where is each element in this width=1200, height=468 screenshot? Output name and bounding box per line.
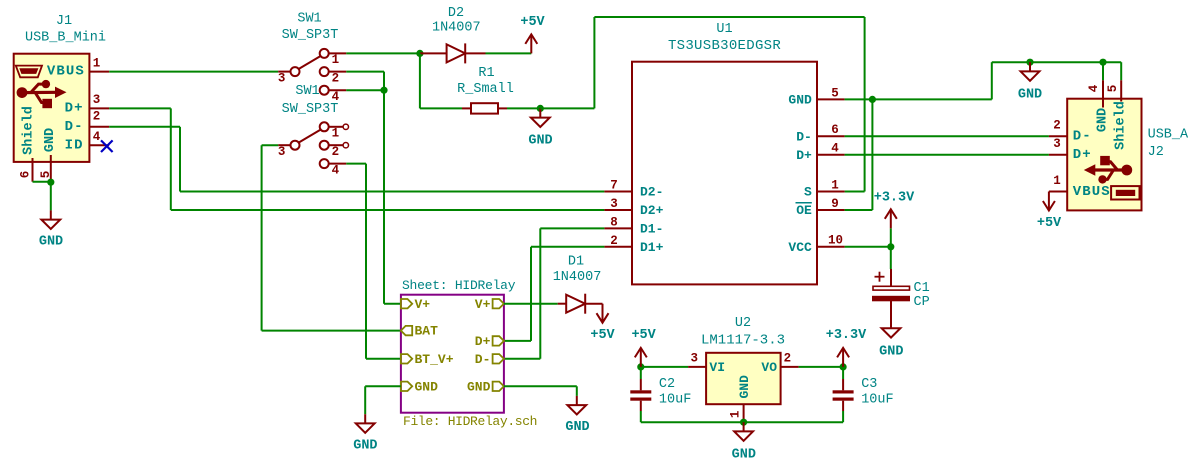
J1 pin 5 GND <box>39 155 53 182</box>
regulator U2 body <box>706 353 781 404</box>
wire sheet D+ stub <box>504 340 531 342</box>
GND label sheet left <box>353 439 377 454</box>
wire V+ vertical <box>383 90 385 304</box>
ground symbol R1 <box>531 108 550 127</box>
wire D1+ vertical <box>530 247 532 341</box>
svg-text:SW_SP3T: SW_SP3T <box>282 28 339 43</box>
wire sheet GND right <box>504 385 577 387</box>
svg-text:D-: D- <box>65 119 84 135</box>
junction R1 gnd <box>537 105 544 112</box>
svg-text:D-: D- <box>1073 129 1092 145</box>
wire gnd row up <box>991 62 993 99</box>
svg-text:D2+: D2+ <box>640 203 664 218</box>
svg-text:C1: C1 <box>914 281 930 296</box>
capacitor C1 value CP <box>914 295 930 310</box>
svg-text:3: 3 <box>278 145 286 159</box>
capacitor C3 reference <box>861 377 877 392</box>
wire sheet D- stub <box>504 358 540 360</box>
capacitor C3 <box>833 367 854 422</box>
svg-text:GND: GND <box>788 93 812 108</box>
wire D- J1 right <box>109 126 180 128</box>
J2 pin 3 D+ <box>1049 137 1067 155</box>
diode D2 <box>420 43 486 63</box>
sheet HIDRelay box <box>401 295 504 413</box>
svg-text:7: 7 <box>610 179 618 193</box>
J2 pin name Shield <box>1114 101 1129 150</box>
svg-text:2: 2 <box>784 351 792 365</box>
wire U1 D+ to J2 <box>845 154 1049 156</box>
svg-text:USB_A: USB_A <box>1148 128 1189 143</box>
svg-text:4: 4 <box>93 130 101 144</box>
svg-text:D1+: D1+ <box>640 240 664 255</box>
svg-text:VBUS: VBUS <box>1073 184 1111 200</box>
J1 pin name Shield <box>22 106 37 155</box>
svg-text:SW1: SW1 <box>297 12 321 27</box>
wire SW1 pin4 right <box>346 89 384 91</box>
sheet pin D+ right <box>475 334 504 349</box>
svg-text:2: 2 <box>610 234 618 248</box>
connector J1 USB_B_Mini body <box>14 54 90 162</box>
U1 pin 10 VCC <box>817 234 845 248</box>
power +3.3V at VCC <box>885 209 897 228</box>
switch SW1 (top) reference <box>297 12 321 27</box>
junction +3.3V C3 <box>840 363 847 370</box>
svg-text:8: 8 <box>610 215 618 229</box>
J2 pin 4 GND <box>1087 80 1103 107</box>
svg-text:1: 1 <box>332 53 340 67</box>
svg-text:3: 3 <box>1053 137 1061 151</box>
junction D2 anode <box>416 50 423 57</box>
GND label R1 <box>528 134 552 149</box>
no-connect X on J1 pin 4 <box>101 140 113 152</box>
wire C2 to C3 bottom <box>641 421 843 423</box>
SW1 bottom lever <box>299 130 321 143</box>
J1 pin 6 Shield <box>19 158 33 182</box>
J2 pin name D- <box>1073 129 1092 145</box>
J2 pin name D+ <box>1073 147 1092 163</box>
sheet pin D- right <box>475 352 504 367</box>
svg-text:6: 6 <box>19 171 33 179</box>
U2 pin 1 GND <box>728 404 743 422</box>
svg-text:LM1117-3.3: LM1117-3.3 <box>701 332 785 348</box>
SW1 bottom pin 1 <box>320 122 343 140</box>
svg-text:6: 6 <box>831 123 839 137</box>
J2 USB trident icon <box>1084 156 1132 184</box>
GND label C1 <box>879 345 903 360</box>
svg-text:VI: VI <box>709 360 725 375</box>
wire +5V to VI <box>641 366 688 368</box>
wire BT_V+ vertical <box>365 164 367 359</box>
wire sheet GND down <box>364 386 366 414</box>
wire J2 pin5 drop <box>1120 62 1122 80</box>
GND label sheet right <box>565 420 589 435</box>
ground symbol sheet right <box>567 396 586 415</box>
wire J2 pin4 drop <box>1102 62 1104 80</box>
wire D2 anode down <box>419 53 421 108</box>
U1 pin 5 GND <box>817 86 845 100</box>
U1 pin 4 D+ <box>817 142 845 156</box>
J2 pin name GND <box>1096 108 1111 132</box>
ground symbol J1 <box>41 210 60 229</box>
wire SW1b pin3 left <box>262 144 279 146</box>
svg-text:GND: GND <box>737 375 752 399</box>
IC U1 body <box>632 62 817 285</box>
J1 USB trident icon <box>17 80 67 108</box>
wire J1 pin6 to pin5 <box>33 181 51 183</box>
svg-text:SW_SP3T: SW_SP3T <box>282 102 339 117</box>
svg-text:D2-: D2- <box>640 185 663 200</box>
svg-text:C3: C3 <box>861 377 877 392</box>
U2 pin 2 VO <box>781 351 799 367</box>
J1 pin name D- <box>65 119 84 135</box>
svg-text:D-: D- <box>796 129 812 144</box>
svg-text:VCC: VCC <box>788 240 812 255</box>
+3.3V label at U2 <box>826 328 867 343</box>
svg-text:2: 2 <box>93 110 101 124</box>
svg-text:+5V: +5V <box>520 15 545 30</box>
svg-text:SW1: SW1 <box>295 84 319 99</box>
J1 pin name VBUS <box>47 64 85 80</box>
wire SW1b pin4 right <box>346 163 366 165</box>
svg-text:2: 2 <box>332 145 340 159</box>
wire VO to +3.3V <box>799 366 844 368</box>
sheet pin GND left <box>401 379 438 394</box>
svg-text:1N4007: 1N4007 <box>553 270 602 285</box>
svg-text:Shield: Shield <box>22 106 37 155</box>
capacitor C1 polarized <box>872 247 910 319</box>
J1 pin name D+ <box>65 101 84 117</box>
power +5V at U2 <box>635 348 647 367</box>
+5V label at D2 <box>520 15 545 30</box>
capacitor C2 reference <box>659 377 675 392</box>
svg-text:CP: CP <box>914 295 930 310</box>
wire VCC junction up <box>890 228 892 247</box>
svg-text:1: 1 <box>831 178 839 192</box>
svg-text:S: S <box>804 185 812 200</box>
wire BAT to sheet <box>262 330 401 332</box>
wire SW1 pin1 to D2 <box>346 52 420 54</box>
ground symbol near J2 <box>1021 62 1040 81</box>
J2 pin name VBUS <box>1073 184 1111 200</box>
U1 pin 3 D2+ <box>604 197 632 211</box>
J2 USB-A plug icon <box>1111 186 1139 199</box>
wire U1 VCC right <box>845 246 891 248</box>
U1 pin name VCC <box>788 240 812 255</box>
wire into U1 pin S <box>845 191 865 193</box>
U1 pin 1 S <box>817 178 845 192</box>
wire down to U1 S <box>864 17 866 192</box>
svg-text:GND: GND <box>1096 108 1111 132</box>
wire into U1 pin OE <box>845 209 873 211</box>
wire top horizontal <box>594 16 864 18</box>
svg-text:1: 1 <box>1053 174 1061 188</box>
svg-text:D1: D1 <box>568 255 584 270</box>
junction U2 GND <box>740 419 747 426</box>
svg-text:USB_B_Mini: USB_B_Mini <box>25 31 106 46</box>
U1 pin name D2+ <box>640 203 664 218</box>
svg-text:10uF: 10uF <box>861 393 893 408</box>
svg-text:4: 4 <box>332 163 340 177</box>
U1 pin name GND <box>788 93 812 108</box>
GND label J1 <box>39 235 63 250</box>
wire U1 D- to J2 <box>845 135 1049 137</box>
wire R1 to gnd junction <box>507 107 540 109</box>
svg-text:D2: D2 <box>448 6 464 21</box>
GND label near J2 <box>1018 88 1042 103</box>
svg-text:2: 2 <box>332 72 340 86</box>
sheet pin BAT <box>401 324 438 339</box>
SW1 top lever <box>299 56 321 69</box>
wire D+ J1 right <box>109 107 171 109</box>
sheet pin BT_V+ <box>401 352 454 367</box>
SW1 top pin 4 <box>320 86 347 105</box>
wire D- to U1 D2- <box>180 191 604 193</box>
+5V label at D1 <box>590 328 615 343</box>
sheet name label <box>402 278 516 293</box>
svg-text:D+: D+ <box>1073 147 1092 163</box>
svg-text:U2: U2 <box>735 316 751 331</box>
U1 pin name OE with overline <box>796 203 812 218</box>
J2 pin 5 Shield <box>1106 80 1121 101</box>
svg-text:GND: GND <box>353 439 377 454</box>
wire D1- vertical <box>539 228 541 358</box>
junction +5V C2 <box>637 363 644 370</box>
wire BT_V+ to sheet <box>366 358 401 360</box>
wire U1 D1- left <box>540 227 604 229</box>
SW1 bottom pin 1 open end <box>343 124 348 129</box>
wire R1 junction right <box>540 107 594 109</box>
GND label U2 <box>732 447 756 462</box>
power +5V at D1 (down) <box>597 304 609 323</box>
wire sheet V+ to D1 <box>504 303 558 305</box>
J1 value label USB_B_Mini <box>25 31 106 46</box>
sheet pin GND right <box>467 379 504 394</box>
SW1 top pin 3 <box>278 67 300 85</box>
IC U1 reference <box>716 22 732 37</box>
resistor R1 value R_Small <box>457 82 514 97</box>
+5V label at J2 <box>1037 216 1062 231</box>
svg-text:D-: D- <box>475 352 491 367</box>
wire U1 D1+ left <box>531 246 604 248</box>
IC U1 value TS3USB30EDGSR <box>668 38 781 54</box>
U1 pin 7 D2- <box>604 179 632 193</box>
diode D1 value 1N4007 <box>553 270 602 285</box>
wire sheet GND left <box>365 385 401 387</box>
svg-text:VBUS: VBUS <box>47 64 85 80</box>
svg-text:OE: OE <box>796 203 812 218</box>
svg-text:1: 1 <box>93 56 101 70</box>
junction VCC C1 <box>887 243 894 250</box>
svg-text:BAT: BAT <box>415 324 439 339</box>
U2 pin name VO <box>761 360 777 375</box>
wire D+ vertical <box>170 108 172 210</box>
wire SW1 pin2 down <box>383 72 385 91</box>
U1 pin name D1+ <box>640 240 664 255</box>
SW1 top pin 1 <box>320 49 347 67</box>
svg-text:GND: GND <box>879 345 903 360</box>
svg-text:3: 3 <box>278 72 286 86</box>
J1 pin 3 D+ <box>89 93 109 108</box>
power +3.3V at U2 <box>837 348 849 367</box>
U2 pin 3 VI <box>688 351 706 367</box>
J1 pin name ID <box>65 138 84 154</box>
svg-text:D+: D+ <box>65 101 84 117</box>
svg-text:1: 1 <box>728 411 742 419</box>
capacitor C3 value 10uF <box>861 393 893 408</box>
regulator U2 reference <box>735 316 751 331</box>
svg-text:1N4007: 1N4007 <box>432 21 481 36</box>
svg-text:ID: ID <box>65 138 84 154</box>
SW1 bottom pin 4 <box>320 159 347 177</box>
svg-text:GND: GND <box>467 379 491 394</box>
U2 pin name VI <box>709 360 725 375</box>
U1 pin 6 D- <box>817 123 845 137</box>
diode D2 value 1N4007 <box>432 21 481 36</box>
svg-text:BT_V+: BT_V+ <box>415 352 454 367</box>
wire OE vertical <box>871 99 873 210</box>
junction gnd symbol J2 <box>1026 59 1033 66</box>
svg-text:3: 3 <box>691 351 699 365</box>
svg-text:GND: GND <box>565 420 589 435</box>
svg-text:V+: V+ <box>475 297 491 312</box>
J1 pin 4 ID <box>89 130 109 145</box>
wire D2 cathode to +5V <box>486 52 532 54</box>
svg-text:3: 3 <box>610 197 618 211</box>
svg-text:D+: D+ <box>475 334 491 349</box>
wire SW1 pin2 right <box>346 71 384 73</box>
svg-text:3: 3 <box>93 93 101 107</box>
svg-text:5: 5 <box>831 86 839 100</box>
U1 pin 8 D1- <box>604 215 632 229</box>
J2 reference label <box>1148 145 1164 160</box>
resistor R1 reference <box>478 66 494 81</box>
svg-text:GND: GND <box>1018 88 1042 103</box>
sheet pin V+ right <box>475 297 504 312</box>
J1 pin name GND <box>43 128 58 152</box>
svg-text:9: 9 <box>831 197 839 211</box>
U2 pin name GND <box>737 375 752 399</box>
svg-text:GND: GND <box>415 379 439 394</box>
svg-text:+5V: +5V <box>631 328 656 343</box>
capacitor C1 reference <box>914 281 930 296</box>
svg-text:D+: D+ <box>796 148 812 163</box>
U1 pin 9 OE <box>817 197 845 211</box>
J2 value label USB_A <box>1148 128 1189 143</box>
svg-text:R1: R1 <box>478 66 494 81</box>
capacitor C2 value 10uF <box>659 393 691 408</box>
svg-text:+5V: +5V <box>590 328 615 343</box>
sheet file label <box>403 414 537 429</box>
wire gnd top to J2 <box>992 61 1121 63</box>
svg-text:Sheet: HIDRelay: Sheet: HIDRelay <box>402 278 516 293</box>
svg-text:10: 10 <box>828 234 843 248</box>
+5V label at U2 <box>631 328 656 343</box>
+3.3V label at VCC <box>874 190 915 205</box>
svg-text:D1-: D1- <box>640 222 663 237</box>
wire D+ to U1 D2+ <box>171 209 605 211</box>
ground symbol C1 <box>882 319 901 338</box>
switch SW1 (bottom) value SW_SP3T <box>282 102 339 117</box>
U1 pin name S <box>804 185 812 200</box>
svg-text:10uF: 10uF <box>659 393 691 408</box>
U1 pin name D1- <box>640 222 663 237</box>
svg-text:GND: GND <box>528 134 552 149</box>
svg-text:4: 4 <box>1087 84 1101 92</box>
svg-text:TS3USB30EDGSR: TS3USB30EDGSR <box>668 38 781 54</box>
U1 pin name D2- <box>640 185 663 200</box>
svg-text:U1: U1 <box>716 22 732 37</box>
wire up to top <box>593 17 595 108</box>
power +5V at J2 (down) <box>1043 192 1055 211</box>
svg-text:C2: C2 <box>659 377 675 392</box>
SW1 top pin 2 <box>320 67 347 86</box>
J2 pin 2 D- <box>1049 119 1067 137</box>
wire BAT vertical <box>261 145 263 330</box>
wire V+ to sheet <box>384 303 401 305</box>
J2 pin 1 VBUS <box>1049 174 1067 192</box>
capacitor C2 <box>630 367 651 422</box>
svg-text:Shield: Shield <box>1114 101 1129 150</box>
connector J2 USB_A body <box>1067 99 1141 211</box>
ground symbol U2 <box>734 422 753 441</box>
diode D1 <box>558 294 603 314</box>
svg-text:VO: VO <box>761 360 777 375</box>
svg-text:J1: J1 <box>56 14 72 29</box>
wire VBUS J1 to SW1 <box>109 71 278 73</box>
svg-text:2: 2 <box>1053 119 1061 133</box>
junction U1 gnd row <box>869 96 876 103</box>
diode D2 reference <box>448 6 464 21</box>
U1 pin name D+ <box>796 148 812 163</box>
regulator U2 value LM1117-3.3 <box>701 332 785 348</box>
J1 pin 1 VBUS <box>89 56 109 71</box>
svg-text:GND: GND <box>39 235 63 250</box>
wire U1 GND pin right <box>845 98 992 100</box>
svg-text:+3.3V: +3.3V <box>874 190 915 205</box>
svg-text:5: 5 <box>39 171 53 179</box>
SW1 bottom pin 2 open end <box>343 143 348 148</box>
J1 pin 2 D- <box>89 110 109 127</box>
svg-text:R_Small: R_Small <box>457 82 514 97</box>
J1 reference label <box>56 14 72 29</box>
junction J1 pin5 <box>47 179 54 186</box>
wire J1 gnd down <box>50 182 52 211</box>
resistor R1 <box>462 103 507 113</box>
svg-text:File: HIDRelay.sch: File: HIDRelay.sch <box>403 414 537 429</box>
svg-text:GND: GND <box>43 128 58 152</box>
SW1 bottom pin 2 <box>320 141 343 159</box>
svg-text:V+: V+ <box>415 297 431 312</box>
svg-text:J2: J2 <box>1148 145 1164 160</box>
power +5V at D2 <box>525 34 537 53</box>
switch SW1 (top) value SW_SP3T <box>282 28 339 43</box>
svg-text:5: 5 <box>1106 85 1120 93</box>
svg-text:1: 1 <box>332 126 340 140</box>
J1 USB-B plug icon <box>16 66 42 78</box>
U1 pin 2 D1+ <box>604 234 632 248</box>
wire sheet GND right down <box>576 386 578 396</box>
diode D1 reference <box>568 255 584 270</box>
sheet pin V+ left <box>401 297 430 312</box>
svg-text:+3.3V: +3.3V <box>826 328 867 343</box>
junction SW1 pin4 <box>380 87 387 94</box>
switch SW1 (bottom) reference <box>295 84 319 99</box>
wire D- vertical <box>179 127 181 192</box>
U1 pin name D- <box>796 129 812 144</box>
svg-text:+5V: +5V <box>1037 216 1062 231</box>
svg-text:GND: GND <box>732 447 756 462</box>
ground symbol sheet left <box>356 414 375 433</box>
